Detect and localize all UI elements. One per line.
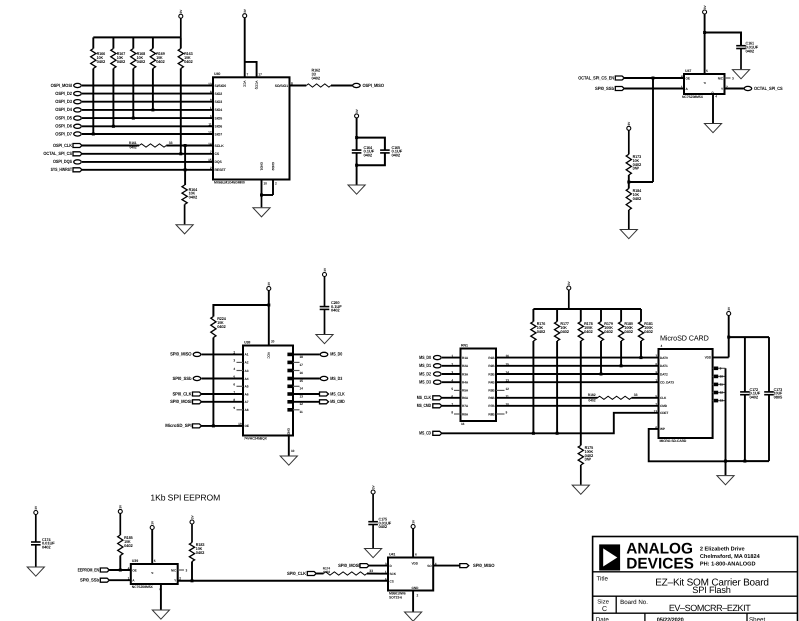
svg-text:GND1: GND1 <box>259 162 263 171</box>
svg-text:12: 12 <box>300 402 304 406</box>
svg-text:SCLK: SCLK <box>215 144 225 148</box>
svg-text:A4: A4 <box>245 377 249 381</box>
svg-text:R3B: R3B <box>488 372 495 376</box>
svg-text:CMD: CMD <box>660 404 668 408</box>
svg-text:MICRO-SD-CARD: MICRO-SD-CARD <box>660 439 687 443</box>
svg-text:R6A: R6A <box>462 396 469 400</box>
svg-text:SCK: SCK <box>390 572 397 576</box>
svg-text:SOT23-6: SOT23-6 <box>389 596 402 600</box>
svg-text:0402: 0402 <box>392 153 401 158</box>
svg-text:MS_D2: MS_D2 <box>419 371 431 376</box>
svg-text:RESET: RESET <box>215 168 227 172</box>
svg-text:DAT2: DAT2 <box>660 372 668 376</box>
svg-text:11: 11 <box>208 123 211 127</box>
svg-text:0402: 0402 <box>42 545 51 550</box>
svg-text:SPI0_SSb: SPI0_SSb <box>173 376 192 381</box>
svg-text:16: 16 <box>300 371 304 375</box>
svg-text:Chelmsford, MA 01824: Chelmsford, MA 01824 <box>700 553 761 560</box>
svg-text:0402: 0402 <box>379 524 388 529</box>
svg-text:R6B: R6B <box>488 396 495 400</box>
svg-text:0402: 0402 <box>129 145 136 149</box>
svg-text:CDET: CDET <box>660 411 668 415</box>
svg-text:R5B: R5B <box>488 389 495 393</box>
svg-text:2 Elizabeth Drive: 2 Elizabeth Drive <box>700 546 745 553</box>
svg-text:10: 10 <box>264 182 268 186</box>
svg-text:R3A: R3A <box>462 372 469 376</box>
svg-text:NC7SZ08M5X: NC7SZ08M5X <box>132 585 154 589</box>
svg-text:OCTAL_SPI_CS: OCTAL_SPI_CS <box>754 86 783 91</box>
svg-text:0402: 0402 <box>196 550 205 555</box>
svg-text:SPI0_MOSI: SPI0_MOSI <box>338 563 359 568</box>
svg-text:1Kb SPI EEPROM: 1Kb SPI EEPROM <box>150 492 220 502</box>
svg-text:R5A: R5A <box>462 389 469 393</box>
svg-text:R4A: R4A <box>462 381 469 385</box>
svg-text:17: 17 <box>258 73 262 77</box>
svg-text:R4B: R4B <box>488 381 495 385</box>
svg-text:12: 12 <box>208 130 212 134</box>
svg-text:N/C: N/C <box>171 568 177 572</box>
svg-text:CD_DAT3: CD_DAT3 <box>660 381 674 385</box>
svg-text:13: 13 <box>208 82 212 86</box>
svg-text:0402: 0402 <box>331 308 340 313</box>
svg-text:R7A: R7A <box>462 404 469 408</box>
svg-text:MS_CMD: MS_CMD <box>417 403 432 408</box>
svg-text:GND2: GND2 <box>271 162 275 171</box>
svg-text:MS_CLK: MS_CLK <box>417 395 432 400</box>
svg-text:R8A: R8A <box>462 412 469 416</box>
svg-text:VDD: VDD <box>412 562 419 566</box>
svg-text:U38: U38 <box>244 340 250 344</box>
svg-text:VDD: VDD <box>705 356 712 360</box>
svg-text:MicroSD CARD: MicroSD CARD <box>660 333 709 342</box>
svg-text:SPI0_MISO: SPI0_MISO <box>170 352 192 357</box>
svg-text:A5: A5 <box>245 385 249 389</box>
svg-text:20: 20 <box>271 340 275 344</box>
svg-text:SIO4: SIO4 <box>215 108 223 112</box>
svg-text:OSPI_D2: OSPI_D2 <box>55 91 72 96</box>
svg-text:A2: A2 <box>245 361 249 365</box>
svg-text:Board No.: Board No. <box>620 599 648 606</box>
svg-text:SPI0_SSb: SPI0_SSb <box>595 86 614 91</box>
svg-text:VCC: VCC <box>267 352 271 359</box>
svg-text:A1: A1 <box>245 353 249 357</box>
svg-text:U40: U40 <box>214 72 220 76</box>
svg-text:0402: 0402 <box>117 59 126 64</box>
svg-text:33: 33 <box>634 393 638 397</box>
svg-text:U41: U41 <box>389 552 395 556</box>
svg-text:0402: 0402 <box>97 59 106 64</box>
svg-text:VCCQ: VCCQ <box>254 81 258 90</box>
svg-text:MS_D0: MS_D0 <box>330 352 342 357</box>
svg-text:OSPI_D7: OSPI_D7 <box>55 131 72 136</box>
svg-text:SIO3: SIO3 <box>215 100 223 104</box>
svg-text:15: 15 <box>208 158 212 162</box>
svg-text:0402: 0402 <box>633 196 642 201</box>
svg-text:12: 12 <box>506 387 510 391</box>
svg-text:0402: 0402 <box>184 59 193 64</box>
svg-text:A6: A6 <box>245 392 249 396</box>
svg-text:DQS: DQS <box>215 160 223 164</box>
svg-text:14: 14 <box>300 387 304 391</box>
svg-text:VCC: VCC <box>243 81 247 88</box>
svg-text:CS: CS <box>215 152 220 156</box>
svg-text:MS_D1: MS_D1 <box>419 363 431 368</box>
svg-text:SPI0_CLK: SPI0_CLK <box>173 391 193 396</box>
svg-text:19: 19 <box>238 422 242 426</box>
svg-text:16: 16 <box>461 422 465 426</box>
svg-text:MicroSD_SPI: MicroSD_SPI <box>165 423 191 428</box>
svg-text:R1B: R1B <box>488 356 495 360</box>
svg-text:Title: Title <box>597 575 609 582</box>
svg-text:0402: 0402 <box>750 395 759 400</box>
svg-text:MX66LM1G45GMI00: MX66LM1G45GMI00 <box>214 181 245 185</box>
svg-text:SPI0_MISO: SPI0_MISO <box>473 563 495 568</box>
svg-text:R2A: R2A <box>462 364 469 368</box>
svg-text:OSPI_MISO: OSPI_MISO <box>363 83 385 88</box>
svg-text:Date: Date <box>596 616 610 621</box>
svg-text:SIO7: SIO7 <box>215 132 223 136</box>
svg-text:U47: U47 <box>685 69 691 73</box>
svg-text:SIO6: SIO6 <box>215 125 223 129</box>
svg-text:0402: 0402 <box>746 48 755 53</box>
svg-text:DNP: DNP <box>585 457 592 462</box>
svg-text:11: 11 <box>720 382 723 386</box>
svg-text:33: 33 <box>169 141 173 145</box>
svg-text:0402: 0402 <box>217 324 226 329</box>
svg-text:0402: 0402 <box>644 329 653 334</box>
svg-text:OCTAL_SPI_CS: OCTAL_SPI_CS <box>43 151 72 156</box>
svg-text:05/22/2020: 05/22/2020 <box>657 617 684 621</box>
svg-text:10: 10 <box>720 374 724 378</box>
svg-text:13: 13 <box>300 394 304 398</box>
svg-text:0402: 0402 <box>323 570 330 574</box>
svg-text:OSPI_CLK: OSPI_CLK <box>53 143 73 148</box>
svg-text:R8B: R8B <box>488 412 495 416</box>
svg-text:0402: 0402 <box>584 329 593 334</box>
svg-text:SPI0_SSb: SPI0_SSb <box>80 578 99 583</box>
svg-text:13: 13 <box>654 409 658 413</box>
svg-text:0402: 0402 <box>156 59 165 64</box>
svg-text:OCTAL_SPI_CS_EN: OCTAL_SPI_CS_EN <box>578 75 614 80</box>
svg-text:10: 10 <box>291 449 295 453</box>
svg-text:C: C <box>602 606 607 613</box>
svg-text:OE: OE <box>245 424 249 428</box>
svg-text:CS: CS <box>390 579 394 583</box>
svg-text:CLK: CLK <box>660 396 667 400</box>
svg-text:0402: 0402 <box>537 329 546 334</box>
svg-text:0402: 0402 <box>624 329 633 334</box>
svg-text:OSPI_D6: OSPI_D6 <box>55 124 72 129</box>
svg-text:OE: OE <box>132 568 136 572</box>
svg-text:18: 18 <box>300 355 304 359</box>
svg-text:DAT0: DAT0 <box>660 356 668 360</box>
svg-text:N/C: N/C <box>718 76 724 80</box>
svg-text:DNP: DNP <box>633 166 640 171</box>
svg-text:R7B: R7B <box>488 404 495 408</box>
svg-text:A7: A7 <box>245 400 249 404</box>
svg-text:OE: OE <box>686 76 690 80</box>
svg-text:MS_CMD: MS_CMD <box>330 399 345 404</box>
svg-text:MS_D3: MS_D3 <box>419 380 431 385</box>
svg-text:Size: Size <box>597 599 609 606</box>
svg-text:SO/SIO1: SO/SIO1 <box>275 84 288 88</box>
svg-text:NC7SZ08M5X: NC7SZ08M5X <box>682 95 704 99</box>
svg-text:0805: 0805 <box>774 395 783 400</box>
svg-text:OSPI_DQS: OSPI_DQS <box>53 159 72 164</box>
svg-text:RN1: RN1 <box>461 343 468 347</box>
svg-text:13: 13 <box>720 399 724 403</box>
svg-text:Sheet: Sheet <box>749 616 765 621</box>
svg-text:MS_D0: MS_D0 <box>419 355 431 360</box>
svg-text:R1A: R1A <box>462 356 469 360</box>
svg-text:DEVICES: DEVICES <box>626 556 694 573</box>
svg-text:MS_CLK: MS_CLK <box>330 391 345 396</box>
svg-text:15: 15 <box>300 379 304 383</box>
svg-text:SIO2: SIO2 <box>215 92 223 96</box>
svg-text:OSPI_D4: OSPI_D4 <box>55 107 72 112</box>
svg-text:SIO5: SIO5 <box>215 116 223 120</box>
svg-text:0402: 0402 <box>604 329 613 334</box>
svg-text:OSPI_D3: OSPI_D3 <box>55 99 72 104</box>
svg-text:11: 11 <box>300 410 303 414</box>
svg-text:PH: 1-800-ANALOGD: PH: 1-800-ANALOGD <box>700 562 756 568</box>
svg-text:33: 33 <box>369 569 373 573</box>
svg-text:A8: A8 <box>245 408 249 412</box>
svg-text:GND: GND <box>287 428 291 436</box>
svg-text:DAT1: DAT1 <box>660 364 668 368</box>
svg-text:0402: 0402 <box>588 399 595 403</box>
svg-text:17: 17 <box>300 363 304 367</box>
svg-text:0402: 0402 <box>137 59 146 64</box>
svg-text:EV–SOMCRR–EZKIT: EV–SOMCRR–EZKIT <box>669 603 751 613</box>
svg-text:0402: 0402 <box>189 195 198 200</box>
svg-text:SPI Flash: SPI Flash <box>692 585 731 595</box>
svg-text:0402: 0402 <box>312 75 321 80</box>
svg-text:SYS_HWRST: SYS_HWRST <box>51 167 73 172</box>
svg-text:OSPI_D5: OSPI_D5 <box>55 115 72 120</box>
svg-text:R2B: R2B <box>488 364 495 368</box>
svg-text:SI/SIO0: SI/SIO0 <box>215 84 227 88</box>
svg-text:14: 14 <box>208 142 212 146</box>
svg-text:SO: SO <box>427 564 432 568</box>
svg-text:12: 12 <box>720 391 724 395</box>
svg-text:MS_CD: MS_CD <box>419 431 431 436</box>
svg-text:SPI0_MOSI: SPI0_MOSI <box>170 399 191 404</box>
svg-text:OSPI_MOSI: OSPI_MOSI <box>51 83 72 88</box>
svg-text:0402: 0402 <box>560 329 569 334</box>
svg-text:R182: R182 <box>588 393 596 397</box>
svg-text:SPI0_CLK: SPI0_CLK <box>287 571 307 576</box>
svg-text:MS_D3: MS_D3 <box>330 376 342 381</box>
svg-text:0402: 0402 <box>364 153 373 158</box>
svg-text:GND: GND <box>412 586 420 590</box>
svg-text:74VHC245BQX: 74VHC245BQX <box>244 437 268 441</box>
svg-text:U39: U39 <box>132 559 138 563</box>
svg-text:0402: 0402 <box>124 543 133 548</box>
svg-text:EEPROM_EN: EEPROM_EN <box>78 567 100 572</box>
svg-text:A3: A3 <box>245 369 249 373</box>
